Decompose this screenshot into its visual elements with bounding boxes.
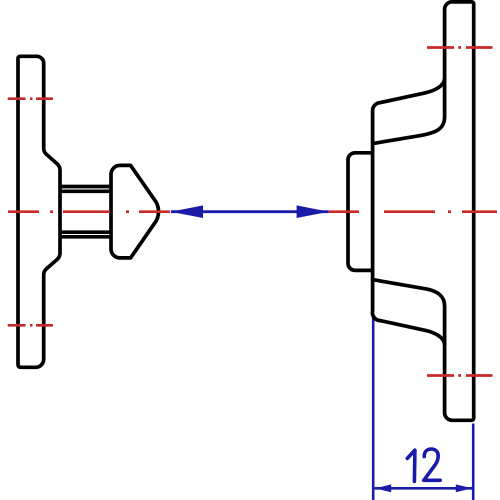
dimension extension line right (x=473): [472, 424, 475, 500]
centerline left flange bottom hole: [8, 324, 53, 327]
left flange outline: [18, 2, 474, 420]
double arrow right head: [297, 205, 329, 218]
main axis centerline: [8, 210, 497, 213]
centerline left flange top hole: [8, 48, 497, 376]
dimension arrowhead left: [375, 484, 391, 492]
right flange web inner top line: [373, 117, 445, 144]
right flange rim and ears: [373, 2, 474, 420]
double arrow between parts: shaft: [171, 210, 329, 213]
stem bottom inner line: [60, 230, 111, 234]
double arrow left head: [171, 205, 203, 218]
knob outline: [111, 165, 159, 258]
centerline right flange bottom hole: [427, 374, 493, 377]
stem top inner line: [60, 189, 111, 193]
stem top outer line: [60, 185, 111, 189]
dimension text 12: [407, 449, 440, 481]
dimension line 12: [375, 487, 473, 490]
dimension extension line left (x=373): [373, 316, 473, 500]
right flange hub and web outer lines: [372, 78, 444, 345]
hub boss: [348, 153, 373, 271]
stem bottom outer line: [60, 235, 111, 239]
centerline right flange top hole: [427, 46, 493, 49]
dimension arrowhead right: [456, 484, 472, 492]
